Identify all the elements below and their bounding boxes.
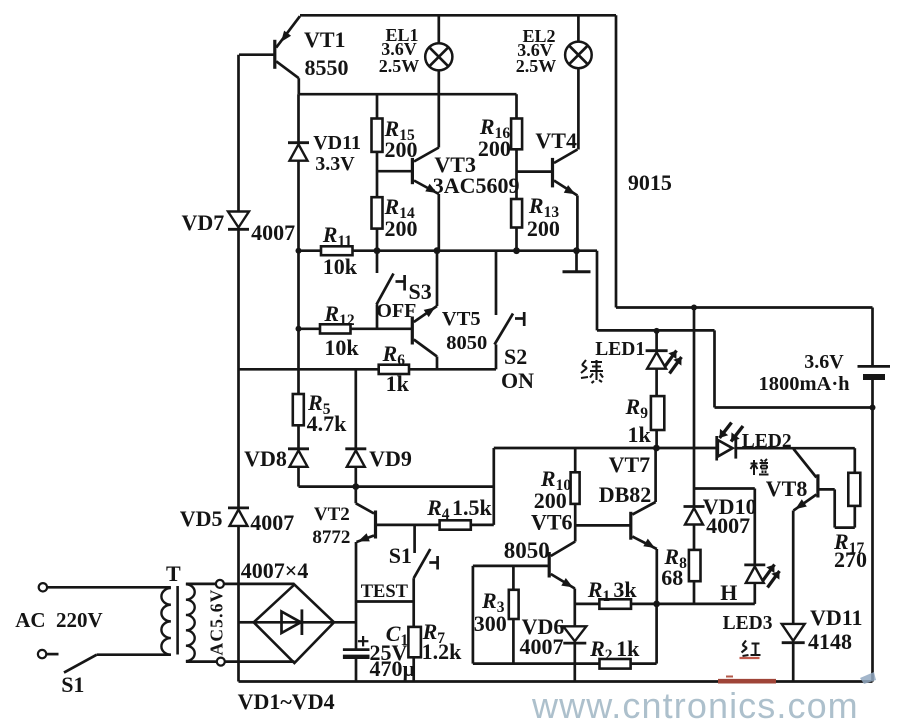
- diode VD9: [345, 447, 366, 450]
- wire R2 right: [631, 662, 657, 665]
- svg-text:VD8: VD8: [244, 446, 287, 471]
- svg-text:S1: S1: [61, 672, 84, 697]
- svg-text:www.cntronics.com: www.cntronics.com: [531, 685, 859, 723]
- svg-text:LED3: LED3: [723, 613, 773, 634]
- lamp EL1: [425, 43, 452, 70]
- wire secondary top: [186, 583, 295, 586]
- wire VT6 emitter down: [573, 589, 576, 627]
- svg-text:H: H: [720, 580, 737, 605]
- wire battery feed: [616, 306, 873, 309]
- resistor R14: [372, 197, 383, 228]
- node LED1 tap: [654, 328, 660, 334]
- wire LED2 to R17 corner: [736, 447, 855, 450]
- svg-text:VT8: VT8: [766, 476, 808, 501]
- wire LED1 top: [655, 331, 658, 351]
- wire x694 corner: [694, 487, 755, 490]
- resistor R16: [511, 119, 522, 150]
- transformer T secondary: [186, 584, 195, 661]
- wire VT7 base row: [575, 524, 631, 527]
- wire R9 down: [655, 430, 658, 448]
- blue smudge at rail end: [860, 672, 876, 684]
- wire R6 to S2: [409, 368, 496, 371]
- transformer T primary: [161, 588, 171, 655]
- wire R17 top: [853, 448, 856, 473]
- svg-text:3AC5609: 3AC5609: [433, 173, 520, 198]
- svg-text:8772: 8772: [312, 527, 350, 548]
- transistor VT7: [629, 512, 632, 540]
- wire VD11 to R5: [297, 161, 300, 394]
- svg-text:1k: 1k: [616, 636, 640, 661]
- wire LED3 top: [753, 489, 756, 565]
- LED LED2: [715, 436, 718, 461]
- node R13-rail: [513, 247, 520, 254]
- svg-text:8550: 8550: [305, 55, 349, 80]
- wire VD10 to R8: [693, 525, 696, 550]
- svg-text:AC5.6V: AC5.6V: [207, 589, 227, 656]
- resistor R15: [372, 119, 383, 152]
- wire R3 tap: [512, 566, 515, 590]
- svg-text:VD5: VD5: [180, 506, 223, 531]
- transistor VT8: [816, 474, 819, 497]
- svg-text:3.6V: 3.6V: [804, 351, 844, 373]
- LED1 light arrows: [665, 351, 677, 368]
- wire S1 down to R7: [412, 602, 415, 627]
- svg-text:VT1: VT1: [304, 27, 346, 52]
- wire VD10 stub: [693, 489, 696, 507]
- svg-text:VT7: VT7: [609, 452, 651, 477]
- svg-text:300: 300: [474, 611, 507, 636]
- wire VD8 to mid rail: [297, 467, 300, 487]
- wire R5 to VD8: [297, 425, 300, 449]
- wire VT7 emitter down: [655, 549, 658, 604]
- wire bridge right: [334, 621, 356, 624]
- resistor R4: [440, 520, 471, 529]
- wire collector rail: [299, 93, 517, 96]
- svg-text:VD7: VD7: [182, 210, 225, 235]
- node R12 tap: [296, 326, 302, 332]
- svg-text:10k: 10k: [324, 335, 359, 360]
- LED LED1: [646, 349, 668, 352]
- svg-text:9015: 9015: [628, 170, 672, 195]
- svg-text:68: 68: [661, 565, 683, 590]
- resistor R12: [320, 324, 351, 333]
- node R14-rail: [374, 247, 381, 254]
- svg-text:1k: 1k: [386, 371, 410, 396]
- label LED2 orange char: [751, 459, 769, 475]
- transistor VT1: [273, 40, 276, 69]
- svg-text:VD11: VD11: [810, 605, 863, 630]
- wire R4 right riser: [492, 448, 495, 525]
- svg-text:1.2k: 1.2k: [422, 639, 463, 664]
- wire EL1 top drop: [437, 15, 440, 43]
- wire EL2 to VT4 collector: [577, 68, 580, 149]
- svg-text:VD1~VD4: VD1~VD4: [238, 689, 335, 714]
- wire R7 to rail: [412, 657, 415, 681]
- wire EL2 top drop: [577, 15, 580, 41]
- svg-text:VD9: VD9: [369, 446, 412, 471]
- wire collector rail to VD11: [297, 94, 300, 143]
- svg-text:ON: ON: [501, 368, 534, 393]
- diode VD5: [228, 506, 249, 509]
- diode VD7: [228, 212, 249, 228]
- wire emitter rail: [299, 249, 598, 252]
- svg-text:270: 270: [834, 547, 867, 572]
- wire EL1 to VT3 collector: [437, 70, 440, 147]
- svg-text:200: 200: [478, 136, 511, 161]
- resistor R1: [599, 599, 631, 609]
- wire R15 to R14: [376, 152, 379, 197]
- svg-text:4007: 4007: [250, 510, 294, 535]
- wire VT7 collector up: [654, 448, 657, 502]
- LED2 light arrows: [720, 423, 732, 439]
- LED3 light arrows: [763, 565, 775, 582]
- wire R4 to riser: [471, 524, 494, 527]
- svg-text:S2: S2: [504, 344, 527, 369]
- svg-text:2.5W: 2.5W: [379, 56, 420, 76]
- terminal stub under VT4: [575, 251, 578, 272]
- resistor R13: [511, 199, 522, 228]
- wire battery return vertical: [713, 330, 716, 407]
- wire VT2 base row: [377, 524, 440, 527]
- resistor R11: [321, 246, 353, 255]
- svg-text:8050: 8050: [504, 538, 550, 563]
- node VT4-rail: [573, 247, 580, 254]
- zener VD11 3.3V: [288, 141, 309, 144]
- node 694 junction: [691, 305, 697, 311]
- transistor VT2: [374, 511, 377, 539]
- wire R2 riser to node: [655, 604, 658, 664]
- svg-text:4007: 4007: [706, 513, 750, 538]
- red underline mark: [740, 657, 760, 659]
- switch S1 mains: [46, 653, 58, 656]
- wire zener row: [299, 485, 494, 488]
- resistor R8: [689, 550, 701, 581]
- svg-text:200: 200: [534, 488, 567, 513]
- svg-text:10k: 10k: [323, 254, 358, 279]
- transistor VT6: [548, 552, 551, 578]
- battery GB 3.6V: [858, 365, 891, 368]
- wire VD7 to VD5: [237, 229, 240, 508]
- svg-text:4148: 4148: [808, 629, 852, 654]
- wire rail corner to R16: [515, 94, 518, 118]
- wire LED3 down: [753, 583, 756, 604]
- capacitor C1: [355, 602, 358, 650]
- wire top power rail: [300, 14, 616, 17]
- svg-text:VT4: VT4: [535, 128, 577, 153]
- wire node row y448: [494, 447, 717, 450]
- switch S2: [495, 251, 498, 315]
- wire AC top: [47, 586, 171, 589]
- wire battery top drop: [871, 308, 874, 367]
- wire R10 top: [574, 448, 577, 472]
- resistor R10: [571, 472, 580, 504]
- C1 plus sign: [358, 640, 369, 642]
- svg-text:2.5W: 2.5W: [516, 56, 557, 76]
- svg-text:200: 200: [385, 216, 418, 241]
- LED LED3: [744, 564, 765, 567]
- resistor R17: [848, 473, 860, 506]
- wire VD9 down: [354, 467, 357, 487]
- wire S1 to VT2 emitter: [356, 600, 414, 603]
- node R1-R2-VT7: [653, 601, 660, 608]
- terminal secondary top: [216, 580, 224, 588]
- wire R3 bottom row: [473, 662, 600, 665]
- switch S3: [376, 251, 379, 273]
- svg-text:8050: 8050: [446, 332, 487, 354]
- svg-text:AC 220V: AC 220V: [15, 608, 103, 632]
- diode VD6: [563, 626, 586, 641]
- svg-text:VT2: VT2: [314, 504, 350, 525]
- svg-text:4007: 4007: [251, 220, 295, 245]
- wire battery minus down: [871, 380, 874, 682]
- switch S1 TEST: [413, 525, 416, 553]
- svg-text:3.3V: 3.3V: [315, 153, 355, 175]
- bridge VD1-VD4 diamond: [254, 585, 334, 663]
- wire VT4 emitter drop: [576, 196, 579, 251]
- svg-text:200: 200: [527, 216, 560, 241]
- node VD9-VT2: [352, 483, 359, 490]
- wire right drop from top rail: [615, 15, 618, 307]
- label LED1 green char: [581, 360, 603, 383]
- node VD11 rail tap: [296, 248, 302, 254]
- wire rail to R15: [376, 94, 379, 118]
- wire VD5 down to bottom rail: [237, 526, 240, 682]
- resistor R3: [509, 590, 519, 619]
- svg-text:4.7k: 4.7k: [307, 411, 348, 436]
- wire bridge left: [239, 621, 254, 624]
- svg-text:DB82: DB82: [599, 482, 652, 507]
- wire VD11 to rail: [792, 643, 795, 682]
- svg-text:T: T: [166, 561, 181, 586]
- svg-text:VT5: VT5: [442, 308, 481, 330]
- svg-text:1k: 1k: [628, 422, 652, 447]
- red watermark remnant on rail: [718, 679, 776, 684]
- wire R17 to base: [853, 506, 856, 528]
- wire VD6 to rail: [573, 643, 576, 681]
- svg-text:4007: 4007: [520, 634, 564, 659]
- svg-text:1.5k: 1.5k: [452, 495, 493, 520]
- bridge inner diode: [254, 621, 334, 624]
- lamp EL2: [565, 42, 592, 69]
- svg-text:TEST: TEST: [361, 582, 409, 602]
- svg-text:3k: 3k: [613, 577, 637, 602]
- resistor R2: [600, 659, 631, 669]
- wire R12 row: [299, 327, 413, 330]
- wire R13 to rail: [515, 228, 518, 251]
- transformer T core: [176, 586, 179, 655]
- wire VD9 top: [354, 369, 357, 449]
- wire AC bottom: [97, 653, 171, 656]
- svg-text:470µ: 470µ: [370, 656, 416, 681]
- wire VT2 emitter down: [355, 542, 358, 602]
- transistor VT5: [411, 317, 414, 345]
- svg-text:VD11: VD11: [313, 132, 361, 154]
- wire R14 to rail: [376, 229, 379, 251]
- diode VD8: [288, 447, 309, 450]
- node VT5-rail: [434, 247, 441, 254]
- wire secondary bottom: [186, 660, 295, 663]
- wire R1 output row: [575, 603, 755, 606]
- wire VT5 emitter up: [436, 251, 439, 306]
- resistor R7: [408, 627, 421, 657]
- wire VT6 base left drop: [472, 566, 475, 664]
- terminal secondary bottom: [217, 658, 225, 666]
- wire LED1 to R9: [655, 369, 658, 396]
- wire VT3 emitter drop: [437, 194, 440, 251]
- wire to battery return top: [597, 329, 715, 332]
- wire battery bottom: [715, 406, 873, 409]
- node R9-VT7: [653, 445, 660, 452]
- diode VD11 4148: [782, 624, 805, 641]
- wire R8 down: [693, 581, 696, 604]
- svg-text:1800mA·h: 1800mA·h: [758, 373, 850, 395]
- wire R10 to VT7 base: [574, 504, 577, 542]
- svg-text:OFF: OFF: [376, 300, 416, 322]
- svg-text:VT6: VT6: [531, 510, 573, 535]
- svg-text:S1: S1: [389, 543, 412, 568]
- resistor R6: [379, 365, 409, 374]
- node battery return: [870, 405, 876, 411]
- terminal AC bottom: [38, 650, 46, 658]
- transistor VT3: [411, 158, 414, 184]
- wire VT1 base drop: [237, 55, 240, 212]
- wire long drop x694: [693, 308, 696, 489]
- svg-text:4007×4: 4007×4: [241, 558, 309, 583]
- svg-text:LED1: LED1: [595, 339, 645, 360]
- resistor R9: [651, 396, 664, 430]
- wire R16 to R13: [515, 149, 518, 199]
- label LED3 red char: [742, 641, 761, 657]
- terminal AC top: [39, 583, 47, 591]
- transistor VT4: [551, 158, 554, 188]
- wire bottom rail: [239, 680, 873, 683]
- wire VT8 emitter down: [792, 511, 795, 624]
- wire R6 row: [239, 368, 379, 371]
- diode VD10: [684, 505, 705, 508]
- resistor R5: [293, 394, 304, 425]
- wire rail corner down: [596, 251, 599, 331]
- wire R3 down: [512, 619, 515, 664]
